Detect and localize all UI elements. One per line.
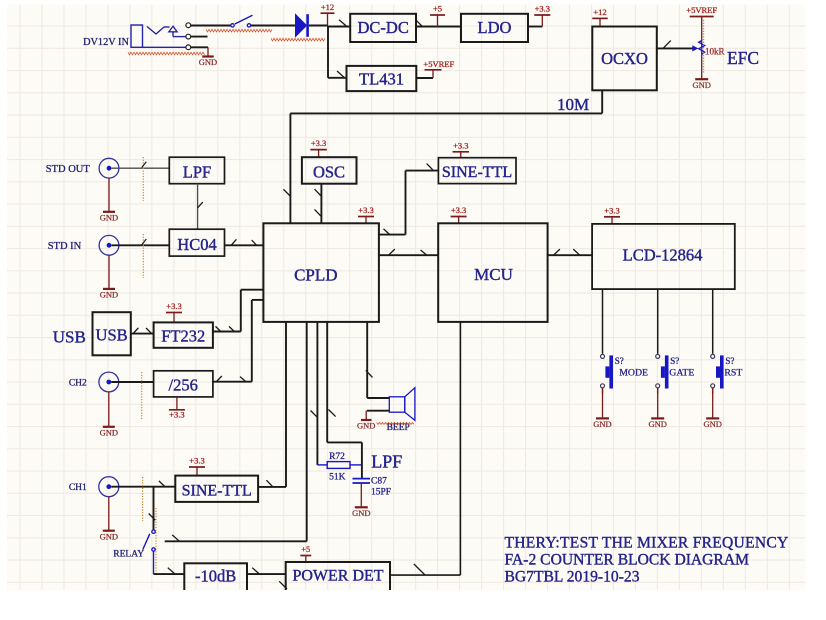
wire jack pin3 to ground xyxy=(191,46,208,48)
ground button RST xyxy=(712,394,714,418)
power +3.3 FT232 xyxy=(166,312,182,314)
block TL431 xyxy=(347,66,417,91)
wire DC-DC to LDO xyxy=(416,26,461,28)
svg-text:+3.3: +3.3 xyxy=(311,138,326,148)
svg-text:SINE-TTL: SINE-TTL xyxy=(182,483,252,500)
wire switch to diode xyxy=(251,25,296,27)
resistor R72 xyxy=(327,462,350,469)
wire speaker bottom xyxy=(367,410,390,412)
tick pair on HC04 wire a xyxy=(231,239,236,245)
svg-text:+3.3: +3.3 xyxy=(453,140,468,150)
svg-text:GND: GND xyxy=(593,419,611,429)
svg-text:MCU: MCU xyxy=(474,265,513,284)
dotted mark STD IN xyxy=(142,234,144,278)
relay switch contacts xyxy=(152,530,155,533)
svg-text:BG7TBL 2019-10-23: BG7TBL 2019-10-23 xyxy=(505,569,640,586)
wire LCD to button MODE xyxy=(602,289,604,354)
tick at POWER DET input xyxy=(279,581,287,589)
wire SINE-TTL left xyxy=(406,170,439,172)
wire SINE-TTL down xyxy=(405,171,407,235)
tick /256 out b xyxy=(240,377,246,382)
dotted mark CH1 xyxy=(142,477,144,521)
pin 1 of jack xyxy=(186,23,191,28)
block OSC xyxy=(302,157,357,184)
svg-text:USB: USB xyxy=(53,328,86,347)
ground speaker xyxy=(365,411,367,420)
tick on CH1 wire xyxy=(159,481,165,487)
wire button RST to ground xyxy=(712,388,714,394)
wire CPLD to MCU xyxy=(379,254,438,256)
svg-text:S?: S? xyxy=(615,356,624,366)
tick SINE-TTL bottom out xyxy=(266,480,272,486)
power +5VREF potentiometer xyxy=(690,16,714,18)
tick on wire D xyxy=(329,410,336,417)
svg-text:S?: S? xyxy=(670,356,679,366)
pin 3 of jack xyxy=(186,45,191,50)
wire LCD to button RST xyxy=(712,289,714,354)
tick on wire B xyxy=(172,535,179,541)
wire D right xyxy=(327,441,362,443)
tick on MCU-LCD wire b xyxy=(573,249,579,255)
wire node to TL431 xyxy=(328,77,347,79)
svg-text:SINE-TTL: SINE-TTL xyxy=(442,164,512,181)
tick on wire C xyxy=(311,411,318,418)
wire MCU bottom down xyxy=(459,322,461,575)
svg-text:DC-DC: DC-DC xyxy=(358,18,409,37)
svg-text:+5: +5 xyxy=(433,4,442,14)
connector STD OUT xyxy=(99,158,119,178)
wire button GATE to ground xyxy=(657,388,659,394)
tick on 10M wire xyxy=(284,189,291,196)
tick on relay wire xyxy=(149,514,156,521)
pin 2 of jack xyxy=(186,34,191,39)
power +3.3 MCU xyxy=(451,216,467,218)
svg-text:USB: USB xyxy=(96,325,128,344)
tick FT232 out a xyxy=(216,326,222,332)
svg-text:15PF: 15PF xyxy=(371,487,391,497)
wire /256 right xyxy=(213,381,252,383)
svg-text:DV12V IN: DV12V IN xyxy=(83,37,129,48)
wire /256 up xyxy=(251,300,253,382)
capacitor C87 xyxy=(353,478,371,480)
dotted mark on potentiometer xyxy=(703,20,705,73)
ground STD OUT xyxy=(108,178,110,212)
tick on STD OUT dotted xyxy=(142,162,147,168)
wire USB to FT232 xyxy=(131,333,154,335)
svg-text:FT232: FT232 xyxy=(161,326,205,345)
block CPLD xyxy=(263,223,379,322)
wire MCU to LCD xyxy=(548,254,593,256)
tick USB-FT232 b xyxy=(146,328,152,334)
power +3.3 SINE-TTL bottom xyxy=(189,466,205,468)
wire jack pin2 stub xyxy=(191,36,208,38)
svg-text:+5VREF: +5VREF xyxy=(686,5,717,15)
power +12 main xyxy=(321,12,335,14)
wire FT232 right xyxy=(213,331,241,333)
connector CH1 xyxy=(99,477,119,497)
wire LCD to button GATE xyxy=(657,289,659,354)
svg-text:+3.3: +3.3 xyxy=(169,410,184,420)
svg-text:CH2: CH2 xyxy=(69,379,87,389)
wavy mark under switch wire xyxy=(206,29,272,32)
svg-text:TL431: TL431 xyxy=(359,70,404,89)
wire to CPLD right xyxy=(379,234,406,236)
wire button MODE to ground xyxy=(602,388,604,394)
tick at -10dB input xyxy=(168,568,175,574)
svg-text:+3.3: +3.3 xyxy=(166,301,181,311)
svg-text:+3.3: +3.3 xyxy=(358,205,373,215)
wire diode to +12 node xyxy=(309,25,328,27)
block LCD-12864 xyxy=(592,224,735,289)
tick on CPLD-MCU wire b xyxy=(421,250,427,255)
ground C87 xyxy=(360,483,362,507)
power +3.3 under /256 xyxy=(169,409,185,411)
svg-text:10M: 10M xyxy=(557,95,589,114)
block FT232 xyxy=(154,322,213,347)
wire relay to -10dB wire xyxy=(153,551,155,574)
tick pair on HC04 wire b xyxy=(252,240,257,245)
ground jack xyxy=(207,47,209,56)
tick on OSC wire a xyxy=(315,189,322,196)
svg-text:LPF: LPF xyxy=(183,162,211,181)
wire C from CPLD down xyxy=(316,322,318,465)
power +3.3 LCD xyxy=(604,216,620,218)
wire B from CPLD down xyxy=(306,322,308,541)
wire OCXO to potentiometer xyxy=(657,47,694,49)
svg-text:RST: RST xyxy=(724,367,742,378)
svg-text:GND: GND xyxy=(100,427,118,437)
tick /256 out a xyxy=(216,376,222,382)
tick on OSC wire b xyxy=(315,209,322,216)
svg-text:STD IN: STD IN xyxy=(48,241,82,252)
ground CH2 xyxy=(108,392,110,427)
block USB xyxy=(93,312,131,355)
ground button MODE xyxy=(602,394,604,418)
pushbutton S? RST xyxy=(711,354,715,358)
tick -10dB out xyxy=(252,568,259,574)
block -10dB xyxy=(184,563,247,600)
svg-text:LPF: LPF xyxy=(371,451,402,471)
wire /256 to CPLD xyxy=(252,299,264,301)
tick FT232 out b xyxy=(229,326,235,332)
svg-text:STD OUT: STD OUT xyxy=(46,164,91,175)
svg-text:+5VREF: +5VREF xyxy=(423,59,454,69)
wire A to CPLD xyxy=(285,322,287,487)
svg-text:GND: GND xyxy=(100,212,118,222)
block HC04 xyxy=(169,229,224,256)
svg-text:CPLD: CPLD xyxy=(294,266,337,285)
wire +12 node to DC-DC xyxy=(328,26,350,28)
tick at DC-DC input xyxy=(339,20,347,27)
dotted mark STD OUT xyxy=(142,157,144,201)
svg-text:MODE: MODE xyxy=(619,367,648,378)
svg-text:+3.3: +3.3 xyxy=(604,205,619,215)
block LPF xyxy=(169,157,224,184)
wire R72 right lead xyxy=(350,464,362,466)
svg-text:+12: +12 xyxy=(593,7,606,17)
diode D1 xyxy=(296,15,307,37)
svg-text:GND: GND xyxy=(352,508,370,518)
svg-text:GND: GND xyxy=(648,419,666,429)
wire FT232 to CPLD xyxy=(241,289,264,291)
wire to -10dB xyxy=(154,573,185,575)
pushbutton S? MODE xyxy=(601,354,605,358)
svg-text:EFC: EFC xyxy=(727,48,759,68)
power +5 after DC-DC xyxy=(430,14,445,16)
tick on MCU-LCD wire a xyxy=(554,249,560,255)
wire OCXO bottom down xyxy=(601,90,603,113)
tick at SINE-TTL input xyxy=(427,164,433,170)
connector CH2 xyxy=(99,372,119,392)
block POWER DET xyxy=(286,562,390,600)
dotted mark relay xyxy=(155,508,157,575)
switch S power xyxy=(231,24,234,27)
block OCXO xyxy=(592,27,657,91)
svg-text:GND: GND xyxy=(703,419,721,429)
wire jack pin1 to switch xyxy=(191,25,231,27)
svg-text:S?: S? xyxy=(725,356,734,366)
tick on CPLD-MCU wire a xyxy=(389,249,395,255)
svg-text:+3.3: +3.3 xyxy=(451,205,466,215)
svg-text:GND: GND xyxy=(100,290,118,300)
connector STD IN xyxy=(99,235,119,255)
wire CH2 to /256 xyxy=(111,381,153,383)
svg-text:LCD-12864: LCD-12864 xyxy=(623,245,703,264)
svg-text:GND: GND xyxy=(692,80,710,90)
svg-text:R72: R72 xyxy=(329,452,345,462)
svg-text:GND: GND xyxy=(100,531,118,541)
power +12 OCXO xyxy=(592,17,608,19)
tick on CPLD-SINETTL wire xyxy=(384,229,390,235)
wire SINE-TTL out xyxy=(258,486,286,488)
wire LPF to HC04 xyxy=(197,184,199,230)
svg-text:OCXO: OCXO xyxy=(601,49,648,68)
svg-text:FA-2 COUNTER BLOCK DIAGRAM: FA-2 COUNTER BLOCK DIAGRAM xyxy=(505,551,750,568)
svg-text:CH1: CH1 xyxy=(69,483,87,493)
dotted mark CH2 xyxy=(141,372,143,419)
tick at TL431 input xyxy=(337,71,345,78)
wire B left xyxy=(165,540,307,542)
wire TL431 to +5VREF xyxy=(416,77,433,79)
connector J1 DC power jack xyxy=(131,25,143,47)
svg-text:POWER DET: POWER DET xyxy=(292,568,383,585)
svg-text:C87: C87 xyxy=(371,476,387,486)
wavy mark under jack wire xyxy=(128,52,205,55)
power +3.3 after LDO xyxy=(534,14,550,16)
block SINE-TTL bottom xyxy=(175,476,258,502)
svg-text:+3.3: +3.3 xyxy=(189,456,204,466)
wire +12 node down xyxy=(327,26,329,78)
svg-text:+3.3: +3.3 xyxy=(535,4,550,14)
svg-text:-10dB: -10dB xyxy=(195,566,236,585)
tick USB-FT232 a xyxy=(133,328,138,334)
wire 10M down to CPLD xyxy=(289,113,291,223)
potentiometer R 10kR zigzag xyxy=(699,41,705,55)
wire speaker from CPLD xyxy=(366,322,368,398)
power +3.3 CPLD xyxy=(358,216,374,218)
ground CH1 xyxy=(108,497,110,531)
svg-text:THERY:TEST THE MIXER FREQUENCY: THERY:TEST THE MIXER FREQUENCY xyxy=(505,534,789,551)
tick at POWER DET output xyxy=(414,564,425,575)
wire -10dB to POWER DET xyxy=(247,573,286,575)
wire 10M horizontal xyxy=(290,112,602,114)
block MCU xyxy=(438,223,547,322)
block SINE-TTL top xyxy=(438,158,516,184)
svg-text:51K: 51K xyxy=(329,472,346,482)
power +5 POWER DET xyxy=(300,555,311,557)
svg-text:HC04: HC04 xyxy=(177,235,216,254)
wire D down to cap xyxy=(361,442,363,478)
wire STD IN to HC04 xyxy=(112,244,170,246)
svg-text:+5: +5 xyxy=(301,544,310,554)
power +3.3 OSC xyxy=(310,149,327,151)
tick on STD IN dotted xyxy=(142,239,147,245)
wire LDO to +3.3 xyxy=(528,26,542,28)
wire HC04 to CPLD xyxy=(225,244,264,246)
wavy mark at BEEP xyxy=(377,422,415,424)
block /256 xyxy=(154,371,213,397)
power +5VREF after TL431 xyxy=(425,69,442,71)
block DC-DC xyxy=(350,14,416,42)
svg-text:LDO: LDO xyxy=(478,18,512,37)
wire CH1 to SINE-TTL xyxy=(111,486,175,488)
tick on speaker wire xyxy=(366,370,373,377)
svg-text:10kR: 10kR xyxy=(705,47,725,57)
wire D from CPLD down xyxy=(326,322,328,443)
svg-text:GND: GND xyxy=(199,57,217,67)
wire CH1 node down xyxy=(153,487,155,530)
tick on LPF wire xyxy=(198,202,203,208)
wire R72 left lead xyxy=(317,464,327,466)
block LDO xyxy=(461,14,528,42)
wire OSC to CPLD xyxy=(320,184,322,224)
potentiometer wiper arrow xyxy=(692,45,698,51)
svg-text:OSC: OSC xyxy=(313,162,345,181)
speaker LS1 xyxy=(389,397,405,412)
tick at DC-DC output xyxy=(416,20,423,27)
pushbutton S? GATE xyxy=(656,354,660,358)
wire STD OUT to LPF xyxy=(112,167,170,169)
wire to speaker top xyxy=(367,397,389,399)
ground potentiometer xyxy=(701,78,703,80)
svg-text:RELAY: RELAY xyxy=(113,550,144,560)
svg-text:/256: /256 xyxy=(169,376,198,395)
wire POWER DET to MCU wire xyxy=(390,574,460,576)
svg-text:GATE: GATE xyxy=(669,367,694,378)
wire FT232 up xyxy=(240,290,242,332)
ground button GATE xyxy=(657,394,659,418)
ground STD IN xyxy=(108,255,110,289)
power +3.3 SINE-TTL xyxy=(453,151,470,153)
wire potentiometer body xyxy=(701,18,703,79)
tick at OCXO output xyxy=(663,41,671,49)
wavy mark under diode xyxy=(271,38,325,41)
svg-text:GND: GND xyxy=(357,421,375,431)
